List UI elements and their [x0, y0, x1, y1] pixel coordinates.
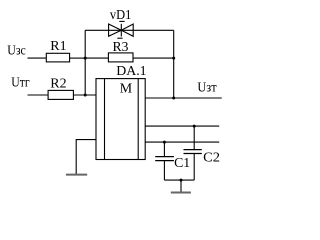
svg-text:Uзт: Uзт — [197, 81, 216, 96]
wire ground stem — [180, 180, 182, 192]
svg-text:C1: C1 — [174, 156, 190, 171]
junction node A (R1/R3/vertical) — [84, 57, 87, 60]
svg-text:M: M — [120, 81, 133, 96]
junction node C (R2 line/left vertical) — [84, 94, 87, 97]
ground left — [66, 174, 87, 176]
wire Uтг lead to R2 — [28, 94, 49, 96]
svg-text:DA.1: DA.1 — [116, 64, 146, 79]
capacitor C2 — [184, 126, 202, 180]
wire vertical node A to R2 line — [84, 30, 86, 95]
wire Uзс lead to R1 — [28, 57, 47, 59]
label Uзт — [197, 81, 216, 96]
wire R3 to right vertical — [133, 57, 174, 59]
capacitor C1 — [155, 142, 174, 180]
wire DA.1 lower-left pin — [76, 140, 96, 175]
diode vD1 bidirectional zener — [109, 21, 134, 38]
label Uзс — [7, 44, 26, 59]
ground right — [171, 192, 191, 194]
resistor R3 — [108, 53, 133, 62]
wire line3 from DA.1 — [145, 141, 219, 143]
op-amp U1 IC DA.1 body — [96, 79, 145, 160]
wire C1 C2 common bottom — [164, 179, 194, 181]
junction node D (output/right vertical) — [172, 97, 175, 100]
wire R1 to node A — [70, 57, 86, 59]
junction node B (R3/right vertical) — [172, 57, 175, 60]
junction node G (bottom wire/ground stem) — [180, 179, 183, 182]
wire right vertical vD1 to output line — [173, 30, 175, 98]
junction node E (line2/C2) — [193, 125, 196, 128]
svg-text:C2: C2 — [203, 150, 220, 165]
resistor R1 — [46, 53, 69, 62]
resistor R2 — [48, 90, 73, 99]
svg-text:Uзс: Uзс — [7, 44, 26, 59]
wire node A to R3 — [85, 57, 108, 59]
svg-text:vD1: vD1 — [110, 8, 131, 23]
wire R2 to DA.1 input — [73, 94, 96, 96]
wire output line Uзт — [145, 97, 222, 99]
wire line2 from DA.1 — [145, 125, 219, 127]
svg-text:Uтг: Uтг — [11, 76, 30, 91]
svg-text:R1: R1 — [50, 39, 66, 54]
junction node F (line3/C1) — [163, 141, 166, 144]
wire top horizontal through vD1 — [85, 29, 174, 31]
svg-text:R2: R2 — [50, 77, 66, 92]
label Uтг — [11, 76, 30, 91]
